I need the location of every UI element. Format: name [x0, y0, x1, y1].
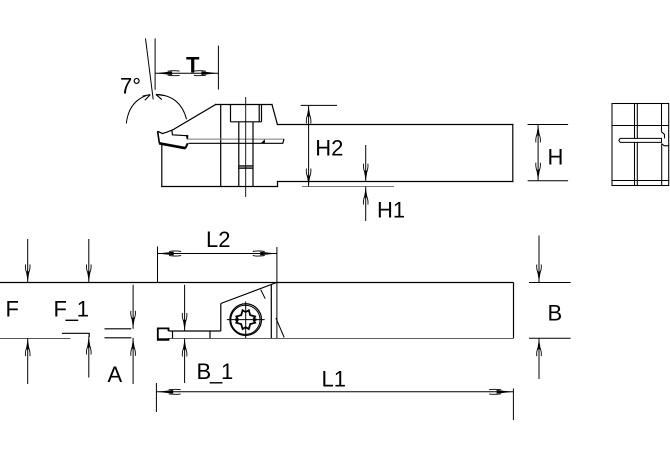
- B_1 upper dimension line: [184, 285, 186, 331]
- svg-text:H: H: [548, 145, 564, 170]
- F upper dimension line: [27, 239, 29, 283]
- insert bottom bold edge: [159, 143, 185, 148]
- insert right bold edge: [185, 143, 187, 148]
- L1 right extension line: [512, 389, 514, 421]
- H1 lower dimension line: [365, 187, 367, 221]
- screw centerline tick right: [254, 318, 257, 321]
- svg-text:A: A: [108, 362, 123, 387]
- left vertical extension line: [154, 38, 156, 89]
- end view shank top line: [612, 125, 669, 127]
- body top edge: [0, 282, 514, 284]
- screw (lower view): [227, 302, 265, 339]
- screw shaft left: [238, 122, 240, 187]
- L1 dimension line: [156, 391, 513, 393]
- angle arc left: [126, 96, 146, 124]
- B bottom extension line: [529, 337, 571, 339]
- shank right edge: [512, 125, 514, 182]
- svg-text:L2: L2: [206, 227, 230, 252]
- angle arc right: [157, 94, 187, 119]
- shank bottom edge: [278, 181, 513, 183]
- T right arrowhead: [194, 71, 218, 76]
- screw centerline horizontal: [227, 319, 265, 321]
- head top-right chamfer: [272, 105, 277, 125]
- head right inner vertical: [270, 285, 272, 339]
- angle vertex right arrowhead: [156, 94, 164, 99]
- end view slot left line: [634, 104, 636, 186]
- head right outer vertical / L2 extension: [276, 247, 278, 338]
- blade top line (thin grey): [188, 138, 285, 140]
- blade inner vertical: [209, 331, 211, 338]
- end view insert bar: [619, 138, 662, 142]
- screw centerline: [245, 97, 247, 197]
- H1 up arrowhead: [363, 187, 368, 205]
- counterbore right edge: [258, 105, 260, 122]
- A lower dimension line: [132, 338, 134, 384]
- svg-text:H2: H2: [315, 136, 343, 161]
- insert left edge: [158, 131, 160, 143]
- torx recess: [236, 310, 255, 329]
- H2 top arrowhead: [306, 106, 311, 124]
- screw outer circle: [230, 304, 262, 336]
- body bottom edge main (grey): [158, 338, 514, 340]
- insert nose end bump: [186, 135, 188, 140]
- end view shank bottom line: [612, 180, 669, 182]
- insert clamp (upper view): [158, 130, 189, 148]
- svg-text:H1: H1: [377, 198, 405, 223]
- A upper dimension line: [132, 285, 134, 329]
- H dimension line: [537, 125, 539, 181]
- svg-text:F_1: F_1: [54, 297, 89, 322]
- F_1 upper dimension line: [88, 239, 90, 283]
- counterbore right inner line: [261, 105, 263, 122]
- B_1 lower dimension line: [184, 339, 186, 384]
- pocket chamfer diagonal lower right: [276, 318, 284, 338]
- body right edge: [513, 283, 515, 339]
- screw outer circle double: [231, 305, 260, 334]
- H top arrowhead: [536, 125, 541, 143]
- screw centerline vertical: [245, 302, 247, 339]
- head slant edge: [221, 283, 277, 304]
- A upper datum line: [105, 328, 132, 330]
- H1 upper dimension line: [365, 145, 367, 182]
- insert tip cap (lower view): [158, 328, 210, 339]
- L1 left extension line: [155, 383, 157, 412]
- F lower dimension line: [27, 338, 29, 384]
- end view slot right line: [636, 104, 638, 186]
- L1 right arrowhead: [489, 389, 513, 394]
- head bottom edge: [162, 186, 278, 188]
- end view outer rectangle: [612, 104, 669, 186]
- insert cap inner edge: [172, 331, 174, 338]
- end view notch lower hook: [662, 143, 669, 145]
- svg-text:T: T: [186, 53, 200, 78]
- end view notch upper: [661, 132, 664, 139]
- screw shaft right: [252, 122, 254, 187]
- H bottom arrowhead: [536, 163, 541, 181]
- A lower datum line: [105, 337, 132, 339]
- right vertical extension line: [217, 46, 219, 90]
- head top-left slant: [172, 105, 216, 131]
- head-shank bottom step: [277, 182, 279, 187]
- slanted 7-degree line: [146, 38, 154, 99]
- B top extension line: [529, 282, 571, 284]
- F_1 lower dimension line: [88, 337, 90, 378]
- H top extension line: [528, 124, 569, 126]
- blade tiny arrow: [261, 139, 265, 143]
- svg-text:F: F: [6, 297, 19, 322]
- B lower dimension line: [538, 338, 540, 379]
- svg-text:L1: L1: [322, 367, 346, 392]
- angle vertex left arrowhead: [143, 95, 151, 101]
- T left arrowhead: [156, 71, 180, 76]
- L2 dimension line: [158, 253, 277, 255]
- head left edge: [161, 144, 163, 186]
- svg-text:7°: 7°: [120, 74, 141, 99]
- pocket boundary vertical: [220, 105, 222, 187]
- screw (upper view): [231, 105, 262, 187]
- blade top edge (lower view): [169, 330, 221, 332]
- T dimension line: [155, 72, 218, 74]
- counterbore bottom: [231, 121, 262, 123]
- L2 left arrowhead: [157, 251, 181, 256]
- L2 right arrowhead: [253, 251, 277, 256]
- head top edge: [216, 104, 272, 106]
- H2 dimension line: [308, 105, 310, 186]
- shank top edge: [277, 124, 512, 126]
- H2 bottom arrowhead: [306, 169, 311, 187]
- counterbore left edge: [230, 105, 232, 122]
- end view inner right line lower: [661, 144, 663, 186]
- L1 left arrowhead: [157, 389, 181, 394]
- end view inner right line upper: [661, 104, 663, 132]
- H bottom extension line: [528, 180, 569, 182]
- F_1 datum line: [62, 333, 89, 337]
- L2 left extension line: [157, 247, 159, 283]
- H1 down arrowhead: [363, 164, 368, 182]
- pocket chamfer diagonal upper: [261, 290, 266, 299]
- H2 top extension line: [301, 104, 337, 106]
- pocket left edge: [220, 304, 222, 332]
- blade bottom line: [189, 139, 285, 143]
- thread band: [239, 166, 253, 169]
- H2 bottom extension line (grey): [302, 186, 394, 188]
- B upper dimension line: [538, 236, 540, 283]
- svg-text:B_1: B_1: [197, 359, 234, 384]
- svg-text:B: B: [548, 301, 563, 326]
- screw centerline tick left: [235, 318, 238, 321]
- body bottom edge left segment: [0, 338, 70, 340]
